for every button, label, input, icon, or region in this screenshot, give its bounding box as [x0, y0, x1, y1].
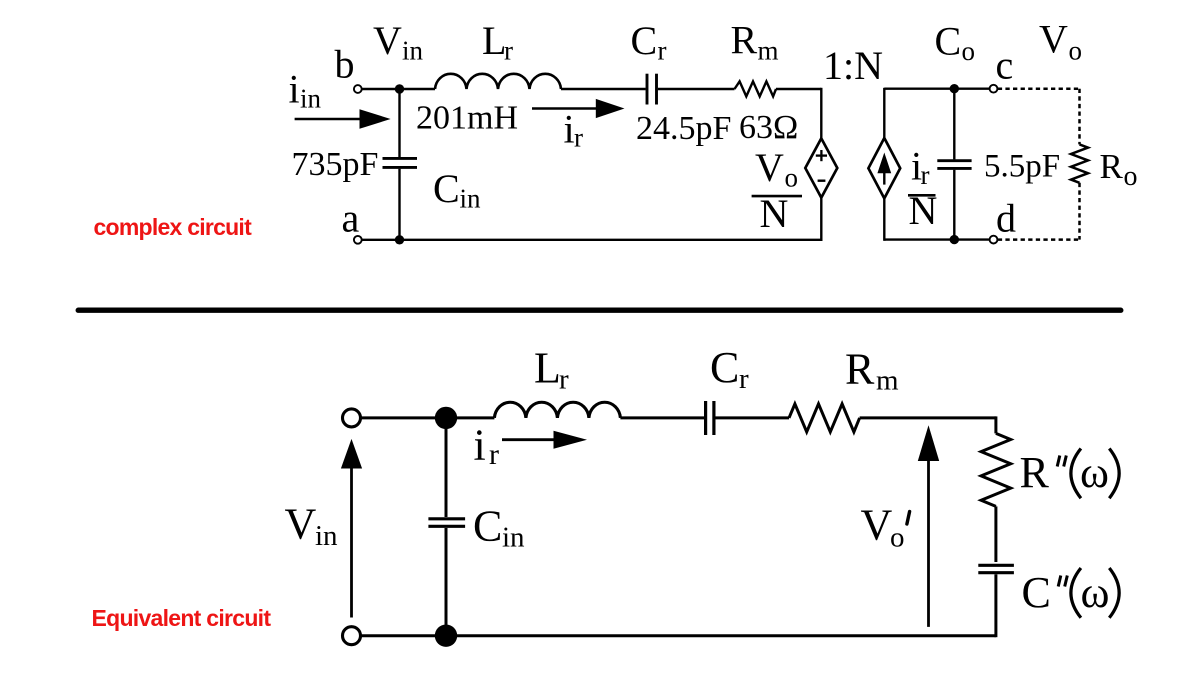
svg-text:ω: ω [1081, 568, 1110, 617]
V_o' arrowhead [918, 425, 939, 461]
wire source to bottom rail [820, 198, 822, 241]
dashed wire bottom [998, 238, 1080, 241]
wire top rail node to inductor [400, 88, 436, 90]
capacitor C_r 24.5pF plates [646, 74, 649, 105]
top rail second side [884, 87, 989, 89]
svg-text:in: in [300, 84, 322, 114]
svg-text:r: r [921, 160, 930, 190]
dashed wire Ro to d [1078, 183, 1081, 240]
node dot bottom [435, 625, 457, 647]
dependent current source diamond ir/N [868, 138, 900, 198]
svg-text:complex circuit: complex circuit [94, 214, 253, 240]
capacitor C_in bottom wire top [445, 418, 448, 517]
bottom rail second side [884, 238, 989, 240]
svg-text:o: o [962, 36, 976, 66]
svg-text:R: R [845, 345, 875, 394]
node dot top [435, 407, 457, 429]
wire C'' to bottom rail [994, 574, 997, 637]
i_in arrow shaft [295, 118, 363, 121]
svg-text:V: V [1039, 17, 1068, 62]
svg-text:m: m [758, 35, 779, 65]
wire corner down [994, 416, 997, 433]
svg-text:r: r [739, 363, 749, 395]
svg-text:C: C [631, 18, 658, 63]
dashed wire c to Ro top [998, 87, 1080, 90]
wire Rm to corner [860, 416, 996, 419]
svg-text:V: V [861, 500, 893, 549]
i_r arrow shaft [532, 107, 599, 110]
svg-text:735pF: 735pF [292, 146, 379, 183]
svg-text:5.5pF: 5.5pF [984, 149, 1060, 185]
resistor R_m 63ohm zigzag [735, 81, 777, 96]
node dot Co top [950, 84, 959, 93]
resistor R_o zigzag [1071, 144, 1088, 182]
dependent voltage source diamond Vo/N [805, 138, 837, 197]
svg-text:V: V [285, 499, 317, 548]
wire b to node [362, 88, 400, 90]
current source arrowhead [877, 153, 891, 174]
svg-text:in: in [315, 520, 338, 552]
svg-text:i: i [289, 67, 300, 112]
svg-text:o: o [1124, 161, 1138, 192]
svg-text:L: L [534, 343, 561, 392]
inductor L_r bottom [494, 402, 620, 418]
svg-text:i: i [564, 107, 575, 152]
svg-text:r: r [504, 36, 513, 66]
svg-text:r: r [559, 364, 569, 396]
terminal bottom-left open circle [343, 627, 361, 645]
wire source bottom [883, 198, 885, 240]
minus sign [818, 179, 826, 181]
bottom rail [361, 634, 996, 637]
wire node to inductor [446, 416, 494, 419]
svg-text:Equivalent circuit: Equivalent circuit [92, 605, 272, 631]
svg-text:C: C [433, 166, 460, 211]
svg-text:R: R [1100, 147, 1124, 186]
bottom rail [362, 239, 821, 241]
C_o wire bottom [953, 170, 955, 240]
svg-text:i: i [474, 420, 486, 469]
i_r arrow shaft bottom [502, 438, 556, 441]
i_r arrowhead [596, 99, 625, 118]
svg-text:o: o [1069, 35, 1083, 65]
terminal d [990, 236, 998, 244]
svg-text:C: C [710, 343, 739, 392]
svg-text:C: C [1022, 568, 1051, 617]
C_in wire bottom [445, 528, 448, 636]
svg-text:L: L [482, 18, 506, 63]
svg-text:in: in [402, 36, 424, 66]
svg-text:63Ω: 63Ω [739, 109, 798, 146]
C_in plates bottom [428, 517, 465, 520]
svg-text:d: d [996, 196, 1016, 241]
svg-text:C: C [473, 502, 502, 551]
wire R'' to C'' [994, 506, 997, 562]
wire Cr to Rm [716, 416, 790, 419]
capacitor C_in wire top [398, 89, 400, 157]
svg-text:R: R [1020, 448, 1050, 497]
C_in plates [383, 157, 418, 160]
svg-text:V: V [373, 18, 402, 63]
plus sign [816, 154, 827, 156]
svg-text:m: m [876, 365, 899, 397]
wire inductor to Cr [561, 88, 646, 90]
wire corner down to source [820, 88, 822, 139]
capacitor C_o wire top [953, 89, 955, 160]
dashed wire down to Ro [1078, 89, 1081, 145]
svg-text:o: o [785, 163, 799, 193]
terminal top-left open circle [343, 409, 361, 427]
resistor R_m bottom zigzag [789, 404, 860, 432]
svg-text:24.5pF: 24.5pF [636, 110, 731, 147]
capacitor C''(w) plates [978, 564, 1014, 567]
wire Cr to Rm [658, 88, 735, 90]
wire terminal to node [361, 416, 446, 419]
i_in arrowhead [360, 109, 391, 129]
svg-text:r: r [574, 123, 583, 153]
V_in arrowhead [341, 439, 362, 469]
svg-text:in: in [502, 522, 525, 554]
C_in wire bottom [398, 169, 400, 240]
transformer second side: left vertical wire [883, 88, 885, 138]
svg-text:R: R [731, 18, 758, 63]
svg-text:N: N [909, 188, 938, 233]
node dot Vin [395, 84, 404, 93]
svg-text:r: r [489, 438, 499, 471]
svg-text:b: b [335, 42, 355, 87]
resistor R''(w) vertical zigzag [981, 433, 1011, 506]
svg-text:in: in [460, 184, 482, 214]
fraction bar [752, 195, 802, 198]
svg-text:N: N [760, 191, 789, 236]
inductor L_r 201mH [435, 74, 561, 89]
capacitor C_r plates bottom [704, 401, 707, 435]
node dot a rail [395, 235, 404, 244]
wire Rm to corner [776, 88, 821, 90]
terminal b [354, 85, 362, 93]
terminal a [354, 236, 362, 244]
svg-text:ω: ω [1080, 448, 1109, 497]
i_r arrowhead bottom [554, 431, 588, 449]
svg-text:C: C [935, 18, 962, 63]
V_o' arrow shaft [927, 456, 930, 627]
terminal c [990, 85, 998, 93]
svg-text:c: c [996, 43, 1014, 88]
node dot Co bottom [950, 235, 959, 244]
C_o plates [937, 159, 971, 162]
current source arrow shaft [883, 168, 885, 185]
divider line [78, 308, 1121, 313]
svg-text:a: a [342, 196, 360, 241]
V_in arrow shaft [350, 464, 353, 618]
svg-text:V: V [755, 145, 784, 190]
wire inductor to Cr [620, 416, 704, 419]
svg-text:o: o [890, 521, 905, 553]
svg-text:r: r [658, 36, 667, 66]
svg-text:1:N: 1:N [823, 43, 883, 88]
svg-text:201mH: 201mH [416, 100, 518, 137]
